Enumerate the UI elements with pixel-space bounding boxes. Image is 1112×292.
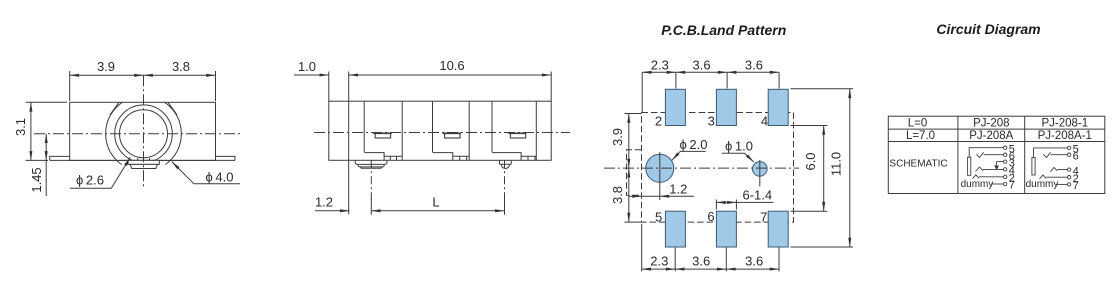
svg-text:PJ-208A-1: PJ-208A-1 (1038, 130, 1092, 142)
svg-text:P.C.B.Land Pattern: P.C.B.Land Pattern (661, 22, 786, 38)
svg-text:PJ-208-1: PJ-208-1 (1041, 117, 1088, 129)
svg-text:L=7.0: L=7.0 (906, 130, 935, 142)
svg-text:7: 7 (1009, 180, 1015, 192)
svg-text:PJ-208: PJ-208 (973, 117, 1009, 129)
svg-text:3: 3 (708, 113, 715, 128)
svg-text:dummy: dummy (1026, 179, 1059, 190)
svg-text:7: 7 (760, 209, 767, 224)
svg-text:L=0: L=0 (908, 117, 928, 129)
svg-text:ϕ 2.6: ϕ 2.6 (76, 172, 104, 187)
svg-text:1.2: 1.2 (315, 195, 333, 210)
svg-text:ϕ 1.0: ϕ 1.0 (725, 139, 753, 154)
svg-text:dummy: dummy (961, 179, 994, 190)
svg-text:11.0: 11.0 (829, 152, 844, 176)
svg-text:ϕ 2.0: ϕ 2.0 (680, 137, 708, 152)
svg-text:7: 7 (1073, 180, 1079, 192)
svg-text:3.6: 3.6 (745, 57, 763, 72)
svg-text:3.8: 3.8 (610, 186, 625, 204)
svg-text:3.6: 3.6 (745, 254, 763, 269)
svg-text:2.3: 2.3 (650, 254, 668, 269)
svg-text:SCHEMATIC: SCHEMATIC (889, 158, 947, 169)
svg-text:1.0: 1.0 (298, 59, 316, 74)
svg-text:10.6: 10.6 (439, 58, 464, 73)
svg-text:2: 2 (655, 113, 662, 128)
svg-text:3.6: 3.6 (693, 57, 711, 72)
svg-text:Circuit Diagram: Circuit Diagram (936, 21, 1040, 37)
svg-text:4: 4 (761, 113, 768, 128)
svg-text:6-1.4: 6-1.4 (742, 188, 772, 203)
svg-text:ϕ 4.0: ϕ 4.0 (206, 169, 234, 184)
svg-text:3.1: 3.1 (13, 118, 28, 136)
svg-text:5: 5 (655, 209, 662, 224)
svg-text:3.9: 3.9 (610, 128, 625, 146)
svg-text:PJ-208A: PJ-208A (969, 130, 1013, 142)
svg-text:3.9: 3.9 (97, 59, 115, 74)
svg-text:6: 6 (707, 209, 714, 224)
svg-text:3.6: 3.6 (692, 254, 710, 269)
svg-text:2.3: 2.3 (651, 57, 669, 72)
svg-text:L: L (432, 195, 439, 210)
svg-text:1.2: 1.2 (669, 182, 687, 197)
svg-text:1.45: 1.45 (29, 167, 44, 192)
svg-text:6: 6 (1073, 150, 1079, 162)
svg-text:6.0: 6.0 (803, 152, 818, 170)
svg-text:3.8: 3.8 (172, 59, 190, 74)
